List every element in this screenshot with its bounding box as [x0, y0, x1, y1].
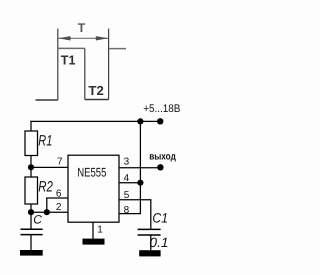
- svg-text:1: 1: [97, 224, 103, 235]
- svg-text:+5...18В: +5...18В: [143, 103, 180, 115]
- node: supply terminal: [157, 118, 163, 124]
- node: pin6 drop junction: [44, 209, 50, 215]
- capacitor C1 bottom plate: [138, 234, 161, 236]
- waveform rising edge 1 + dimension extension: [57, 29, 59, 100]
- ground (right, under C1): [139, 250, 160, 256]
- wire: C bottom lead: [30, 235, 32, 250]
- svg-text:2: 2: [56, 202, 62, 213]
- node C: R2/C/pin2 junction: [28, 209, 34, 215]
- node A: R1/R2/pin7 junction: [28, 164, 34, 170]
- svg-text:5: 5: [124, 190, 130, 201]
- wire: pin 3 output: [119, 167, 160, 169]
- svg-text:C: C: [33, 213, 42, 227]
- dimension line T: [58, 37, 108, 39]
- capacitor C1 top plate: [138, 228, 161, 230]
- ground (middle, pin 1): [83, 239, 105, 245]
- capacitor C bottom plate: [21, 234, 43, 236]
- ground (left, under C): [20, 250, 43, 256]
- waveform baseline: [36, 99, 58, 101]
- node: supply junction: [137, 118, 143, 124]
- wire: pin 5 to C1: [119, 200, 151, 229]
- wire: pin 6 vertical: [46, 198, 48, 212]
- svg-text:T2: T2: [88, 83, 103, 98]
- resistor R2: [25, 177, 38, 204]
- svg-text:выход: выход: [149, 151, 176, 162]
- svg-text:7: 7: [57, 157, 63, 168]
- wire: R1 top lead: [30, 121, 32, 131]
- op-amp/timer IC U1 NE555 body: [68, 155, 119, 222]
- wire: +V top rail: [30, 120, 160, 122]
- node: pin4/+V junction: [137, 180, 143, 186]
- svg-text:8: 8: [124, 205, 130, 216]
- wire: pin 4: [119, 182, 140, 184]
- waveform low segment T2: [85, 99, 109, 101]
- svg-text:T1: T1: [61, 53, 76, 68]
- svg-text:R1: R1: [38, 133, 52, 150]
- svg-text:6: 6: [56, 188, 62, 199]
- capacitor C top plate: [21, 228, 43, 230]
- waveform pulse top 2: [109, 48, 126, 50]
- svg-text:R2: R2: [38, 178, 53, 195]
- wire: R2 top lead: [30, 167, 32, 177]
- svg-text:C1: C1: [152, 211, 168, 226]
- wire: pin 6: [46, 197, 68, 199]
- svg-text:4: 4: [124, 173, 130, 184]
- wire: pin 1 lead: [92, 222, 94, 239]
- wire: +V vertical rail to pin 8: [119, 121, 140, 213]
- wire: C top lead: [30, 212, 32, 228]
- svg-text:3: 3: [124, 157, 130, 168]
- arrowhead left: [58, 36, 70, 40]
- resistor R1: [25, 131, 38, 156]
- svg-text:NE555: NE555: [77, 165, 106, 179]
- wire: pin 7: [31, 166, 68, 168]
- waveform pulse top 1: [58, 47, 85, 49]
- wire: C1 bottom lead: [150, 235, 152, 250]
- wire: R2 bottom lead: [30, 204, 32, 212]
- svg-text:0.1: 0.1: [149, 235, 168, 250]
- waveform rising edge 2 + dimension extension: [108, 29, 110, 100]
- waveform falling edge: [84, 48, 86, 99]
- node: output terminal: [157, 164, 163, 170]
- wire: R1 bottom lead: [30, 156, 32, 168]
- arrowhead right: [96, 36, 108, 40]
- svg-text:T: T: [78, 21, 86, 35]
- wire: C node to pin 2: [31, 211, 68, 213]
